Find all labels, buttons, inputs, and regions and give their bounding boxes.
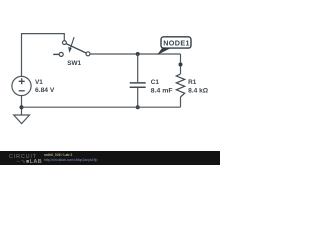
CircuitLab logo	[9, 154, 37, 160]
plot title text	[44, 153, 72, 157]
svg-text:8.4 kΩ: 8.4 kΩ	[188, 87, 208, 94]
svg-text:V1: V1	[35, 79, 43, 86]
wire top-left L from V1 up and over to SW1	[22, 34, 65, 76]
capacitor C1	[130, 79, 173, 94]
wire V1 bottom to ground junction	[21, 96, 23, 115]
voltage source V1	[12, 76, 55, 95]
footer banner	[0, 151, 220, 165]
node name flag NODE1	[157, 37, 191, 55]
SW1 unconnected throw stub	[53, 53, 59, 55]
wire R1 branch top lead	[180, 54, 182, 74]
wire C1 bottom stem	[137, 88, 139, 107]
node dot on R1 lead	[179, 63, 183, 67]
ground	[14, 115, 30, 124]
svg-text:C1: C1	[151, 79, 160, 86]
node junction dot at V1/bottom rail	[20, 105, 24, 109]
SW1 top throw terminal	[63, 41, 67, 45]
SW1 actuator arrow	[71, 37, 75, 48]
svg-text:R1: R1	[188, 79, 197, 86]
node junction dot top rail / C1	[136, 52, 140, 56]
svg-text:6.84 V: 6.84 V	[35, 87, 55, 94]
SW1 left throw terminal	[59, 52, 63, 56]
node junction dot bottom rail / C1	[136, 105, 140, 109]
svg-text:NODE1: NODE1	[163, 39, 190, 48]
wire top rail from SW1 to R1 corner	[90, 53, 181, 55]
wire R1 bottom lead	[180, 97, 182, 107]
svg-text:8.4 mF: 8.4 mF	[151, 87, 173, 94]
SW1 blade	[66, 44, 86, 53]
plot url text	[44, 158, 97, 162]
switch SW1	[53, 37, 90, 67]
SW1 common terminal	[86, 52, 90, 56]
svg-text:SW1: SW1	[67, 60, 81, 67]
wire C1 top stem	[137, 54, 139, 82]
wire bottom rail	[22, 106, 181, 108]
resistor R1	[176, 74, 208, 97]
